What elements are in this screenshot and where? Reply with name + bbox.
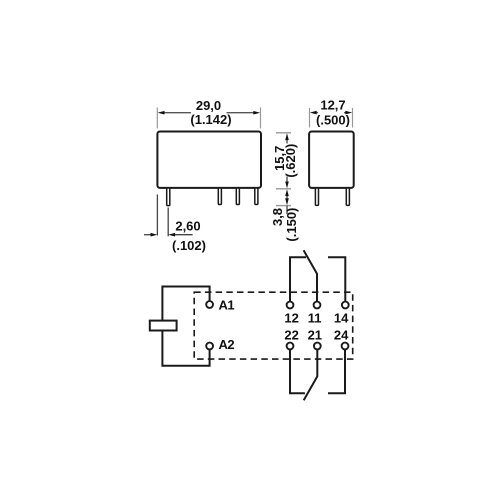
svg-text:22: 22 xyxy=(284,328,298,343)
svg-text:(.620): (.620) xyxy=(283,144,298,178)
svg-text:A1: A1 xyxy=(219,298,235,313)
svg-text:(1.142): (1.142) xyxy=(190,112,231,127)
svg-text:24: 24 xyxy=(334,328,349,343)
svg-text:A2: A2 xyxy=(219,337,235,352)
svg-text:14: 14 xyxy=(334,311,349,326)
svg-text:12,7: 12,7 xyxy=(320,97,345,112)
svg-text:(.150): (.150) xyxy=(284,208,299,242)
svg-text:12: 12 xyxy=(284,311,298,326)
svg-text:2,60: 2,60 xyxy=(175,219,200,234)
svg-text:29,0: 29,0 xyxy=(196,98,221,113)
svg-text:21: 21 xyxy=(308,328,322,343)
svg-text:(.500): (.500) xyxy=(316,112,350,127)
svg-text:11: 11 xyxy=(308,311,322,326)
svg-text:(.102): (.102) xyxy=(172,238,206,253)
